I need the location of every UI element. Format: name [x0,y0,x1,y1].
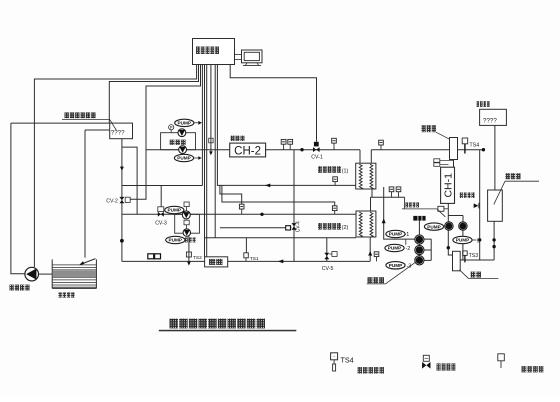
svg-text:TS4: TS4 [341,356,354,365]
svg-text:CH-2: CH-2 [234,146,261,158]
svg-text:P: P [170,125,173,130]
svg-text:-1: -1 [405,232,410,238]
svg-text:CV-4: CV-4 [296,221,302,232]
svg-text:????: ???? [483,118,497,125]
svg-text:PUMP: PUMP [389,232,403,237]
svg-text:PUMP: PUMP [389,263,403,268]
svg-text:PUMP: PUMP [427,224,441,229]
svg-text:PUMP: PUMP [168,208,182,213]
svg-text:(2): (2) [342,225,349,231]
svg-text:CV-3: CV-3 [155,221,167,227]
svg-text:TS2: TS2 [193,255,202,261]
svg-text:PUMP: PUMP [169,238,183,243]
svg-text:CV-5: CV-5 [322,266,334,272]
svg-text:TS1: TS1 [250,256,259,262]
svg-text:TS4: TS4 [469,143,479,149]
svg-text:PUMP: PUMP [178,121,192,126]
svg-text:????: ???? [111,130,125,137]
svg-text:(1): (1) [342,168,349,174]
svg-text:-2: -2 [406,246,411,252]
svg-text:PUMP: PUMP [388,246,402,251]
svg-text:PUMP: PUMP [456,238,470,243]
svg-text:PUMP: PUMP [177,156,191,161]
svg-text:CV-2: CV-2 [106,198,118,204]
svg-text:TS3: TS3 [469,253,479,259]
svg-text:CH-1: CH-1 [442,173,454,198]
svg-text:CV-1: CV-1 [311,154,323,160]
